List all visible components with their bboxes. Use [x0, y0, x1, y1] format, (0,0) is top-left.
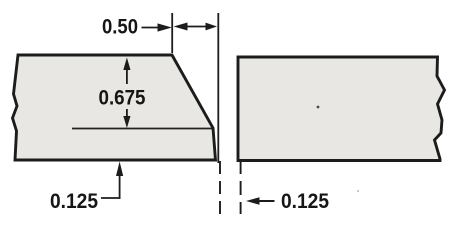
dimension line between extension lines: [180, 26, 210, 28]
0.675 upper arrowhead pointing up at top edge: [123, 58, 130, 71]
left extension line: [171, 13, 173, 53]
left plate (beveled): [13, 55, 216, 160]
leader arrowhead pointing right at left extension line: [158, 23, 172, 31]
bevel depth line (root face line): [72, 128, 212, 130]
svg-text:0.125: 0.125: [281, 189, 329, 213]
svg-text:0.675: 0.675: [99, 86, 146, 110]
right 0.125 leader tail: [258, 200, 275, 202]
svg-text:0.50: 0.50: [102, 15, 138, 39]
scan speck in right plate: [317, 106, 320, 109]
right plate: [238, 57, 445, 161]
0.675 upper arrow shaft: [126, 68, 128, 84]
dashed extension of left gap edge: [219, 161, 221, 218]
0.675 lower arrow shaft: [126, 109, 128, 118]
left 0.125 leader vertical: [119, 175, 121, 199]
leader line from 0.50 label: [142, 27, 160, 29]
dimension arrowhead pointing right: [206, 23, 218, 31]
svg-text:0.125: 0.125: [50, 189, 98, 213]
right 0.125 arrowhead pointing left at dashed line: [246, 197, 260, 205]
left 0.125 arrowhead pointing up at plate bottom: [116, 162, 123, 177]
dashed extension of right plate left edge: [240, 160, 242, 214]
right extension line: [217, 13, 219, 163]
0.675 lower arrowhead pointing down at root face line: [123, 116, 130, 128]
left 0.125 leader horizontal: [101, 197, 121, 199]
faint speck below right plate: [357, 190, 359, 192]
dimension arrowhead pointing left: [174, 23, 188, 31]
